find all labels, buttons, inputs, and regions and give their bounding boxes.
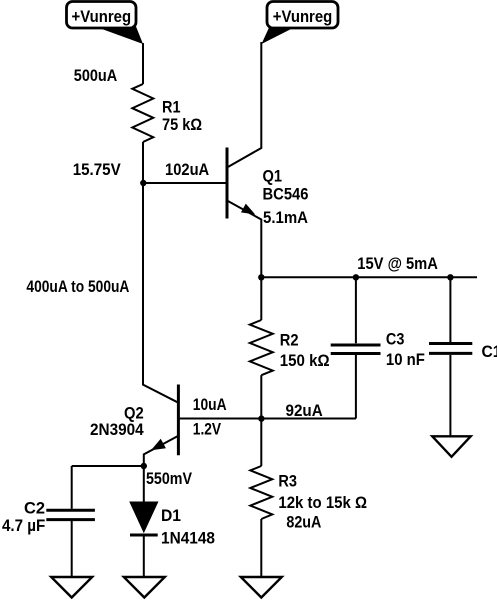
svg-text:R2: R2 [280, 331, 299, 350]
svg-text:75 kΩ: 75 kΩ [162, 115, 202, 134]
svg-text:15V @ 5mA: 15V @ 5mA [357, 254, 438, 273]
svg-text:C3: C3 [386, 329, 405, 348]
svg-text:1.2V: 1.2V [193, 419, 222, 438]
svg-text:102uA: 102uA [165, 160, 209, 179]
svg-text:Q1: Q1 [263, 166, 283, 185]
svg-text:10uA: 10uA [193, 395, 227, 414]
svg-text:+Vunreg: +Vunreg [273, 7, 333, 26]
svg-text:5.1mA: 5.1mA [263, 208, 308, 227]
svg-text:500uA: 500uA [74, 66, 117, 85]
svg-text:92uA: 92uA [286, 401, 323, 420]
svg-text:82uA: 82uA [286, 513, 321, 532]
svg-text:R3: R3 [278, 472, 297, 491]
svg-text:C2: C2 [24, 499, 45, 518]
svg-text:C1: C1 [482, 342, 497, 361]
svg-text:1N4148: 1N4148 [161, 529, 215, 548]
svg-text:R1: R1 [162, 98, 181, 117]
svg-text:2N3904: 2N3904 [90, 420, 144, 439]
svg-text:D1: D1 [161, 506, 181, 525]
svg-text:15.75V: 15.75V [73, 160, 122, 179]
svg-text:10 nF: 10 nF [386, 350, 425, 369]
svg-text:150 kΩ: 150 kΩ [280, 351, 330, 370]
svg-text:12k to 15k Ω: 12k to 15k Ω [278, 493, 367, 512]
svg-text:+Vunreg: +Vunreg [72, 7, 132, 26]
svg-text:400uA to 500uA: 400uA to 500uA [26, 277, 129, 296]
svg-text:4.7 µF: 4.7 µF [2, 516, 45, 535]
svg-text:550mV: 550mV [146, 469, 193, 488]
svg-text:BC546: BC546 [263, 185, 309, 204]
